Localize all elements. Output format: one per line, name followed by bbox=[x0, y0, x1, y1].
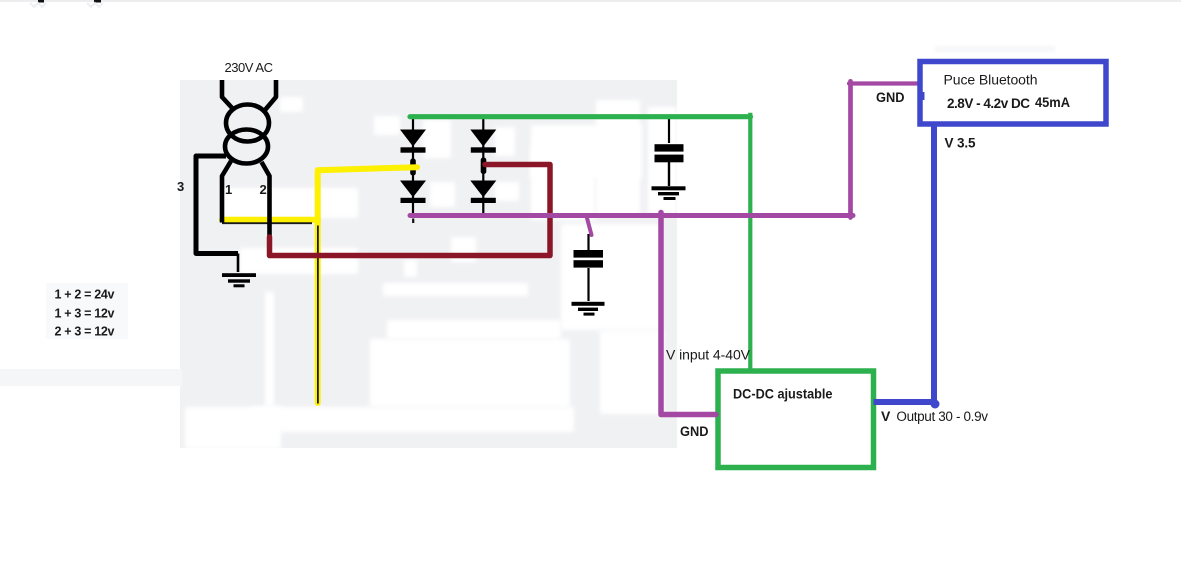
svg-text:V 3.5: V 3.5 bbox=[945, 136, 976, 151]
svg-text:V: V bbox=[881, 408, 891, 424]
svg-text:Puce Bluetooth: Puce Bluetooth bbox=[944, 72, 1038, 88]
svg-text:Output 30 - 0.9v: Output 30 - 0.9v bbox=[893, 409, 988, 424]
svg-text:2 + 3 = 12v: 2 + 3 = 12v bbox=[55, 325, 115, 339]
svg-text:1 + 3 = 12v: 1 + 3 = 12v bbox=[55, 307, 115, 321]
svg-text:1 + 2 = 24v: 1 + 2 = 24v bbox=[55, 288, 115, 302]
svg-text:230V AC: 230V AC bbox=[225, 60, 274, 75]
svg-text:2: 2 bbox=[260, 182, 267, 197]
svg-text:45mA: 45mA bbox=[1035, 94, 1070, 110]
svg-text:1: 1 bbox=[225, 182, 232, 197]
svg-text:3: 3 bbox=[177, 179, 184, 194]
svg-text:2.8V - 4.2v DC: 2.8V - 4.2v DC bbox=[947, 96, 1030, 111]
svg-text:GND: GND bbox=[876, 90, 905, 105]
svg-text:DC-DC ajustable: DC-DC ajustable bbox=[733, 387, 833, 402]
svg-text:V input 4-40V: V input 4-40V bbox=[666, 346, 751, 362]
svg-text:GND: GND bbox=[680, 424, 709, 439]
